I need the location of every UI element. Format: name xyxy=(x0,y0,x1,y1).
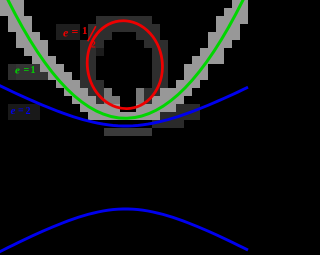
jpeg-artifact grey halo blocks xyxy=(0,0,248,136)
parabola e=1 (green) xyxy=(7,0,244,118)
svg-text:2: 2 xyxy=(26,106,31,117)
label e=2 (blue) xyxy=(11,105,31,117)
svg-text:=: = xyxy=(72,25,79,39)
svg-text:=: = xyxy=(18,106,24,117)
svg-text:1: 1 xyxy=(31,65,36,76)
svg-text:=: = xyxy=(24,65,30,76)
svg-text:2: 2 xyxy=(91,41,96,51)
svg-text:e: e xyxy=(63,26,69,40)
ellipse e=1/2 (red) xyxy=(82,16,168,113)
label e=1 (green) xyxy=(15,65,36,77)
hyperbola e=2 lower branch (blue) xyxy=(0,209,248,253)
svg-text:e: e xyxy=(15,65,20,77)
fraction slash of red label xyxy=(88,26,96,41)
svg-text:1: 1 xyxy=(82,25,88,37)
label e=1/2 (red) xyxy=(63,25,96,51)
svg-text:e: e xyxy=(11,105,16,117)
hyperbola e=2 upper branch (blue) xyxy=(0,85,248,126)
